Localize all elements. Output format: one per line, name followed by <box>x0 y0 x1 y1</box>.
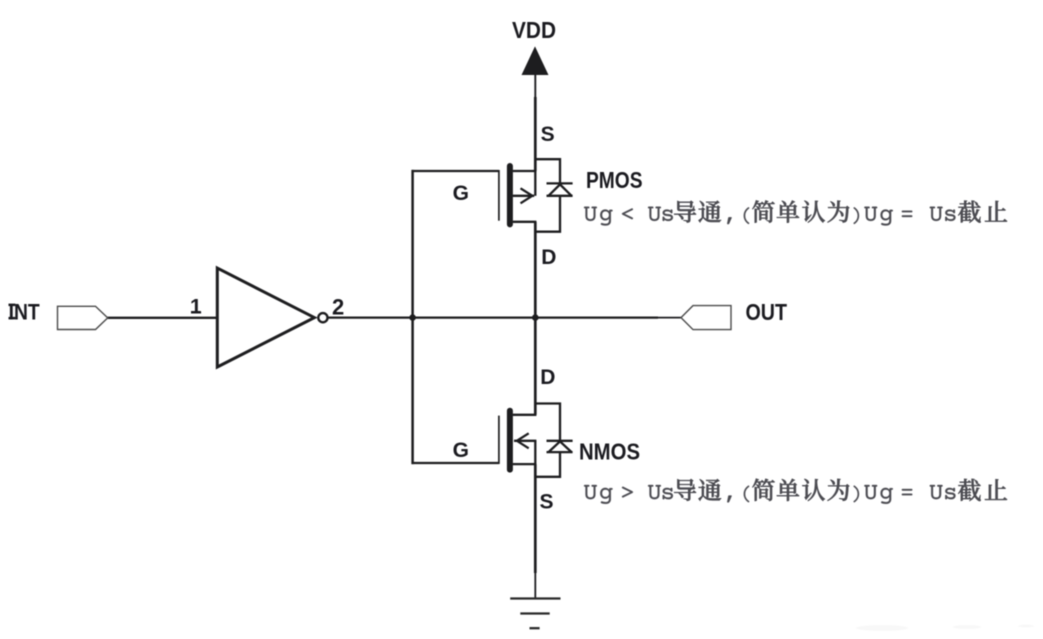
gate electrode line <box>498 170 500 221</box>
svg-text:NMOS: NMOS <box>579 439 640 465</box>
drain stub <box>513 414 537 416</box>
svg-text:G: G <box>453 439 469 462</box>
svg-text:S: S <box>541 123 555 146</box>
svg-text:PMOS: PMOS <box>586 167 643 193</box>
svg-text:G: G <box>453 182 469 205</box>
wire INT port to inverter input <box>108 317 218 319</box>
note PMOS condition text <box>584 200 1007 225</box>
source stub <box>513 170 537 172</box>
wire NMOS source down <box>534 464 537 573</box>
bulk tie vertical <box>534 441 536 464</box>
svg-text:VDD: VDD <box>512 17 556 43</box>
node junction at output <box>532 314 539 321</box>
body diode box <box>535 159 560 183</box>
source stub <box>513 463 537 465</box>
node junction at gate rail <box>409 314 416 321</box>
wire gate rail left vertical <box>411 170 414 464</box>
svg-text:INT: INT <box>9 299 41 324</box>
bulk stub <box>513 195 535 197</box>
wire output node to NMOS drain <box>534 316 537 414</box>
wire VDD pin stub thin <box>534 73 536 98</box>
transistor Q1 PMOS <box>499 159 573 232</box>
svg-text:1: 1 <box>190 295 202 318</box>
svg-text:D: D <box>540 366 555 389</box>
svg-text:D: D <box>541 246 556 269</box>
svg-text:OUT: OUT <box>746 299 788 325</box>
wire ground stem thin <box>534 572 536 599</box>
wire PMOS drain to output node <box>534 222 537 319</box>
svg-text:S: S <box>540 490 554 513</box>
wire OUT pin stub thin <box>657 317 682 319</box>
power VDD arrow <box>522 48 547 75</box>
drain stub <box>513 221 537 223</box>
transistor Q2 NMOS <box>499 404 573 477</box>
port OUT <box>681 306 731 330</box>
body diode box <box>535 404 560 441</box>
op-amp U1 inverter triangle <box>217 268 314 367</box>
bulk tie vertical <box>534 171 536 196</box>
body diode D2 <box>547 440 573 442</box>
channel bar <box>507 411 513 470</box>
body diode D1 <box>547 182 573 184</box>
svg-text:2: 2 <box>332 295 344 320</box>
bulk arrow <box>517 433 529 448</box>
wire VDD rail <box>534 97 537 171</box>
port INT <box>58 306 108 329</box>
wire NMOS gate horizontal <box>412 462 499 464</box>
wire inverter output to output node <box>328 316 658 318</box>
wire PMOS gate horizontal <box>412 170 499 172</box>
bulk stub <box>514 440 536 442</box>
gate electrode line <box>498 416 500 464</box>
faint watermark smudge <box>856 625 1034 632</box>
channel bar <box>507 166 513 224</box>
inverter bubble <box>318 313 327 322</box>
note NMOS condition text <box>584 479 1007 504</box>
bulk arrow <box>521 188 533 203</box>
ground <box>510 599 560 629</box>
